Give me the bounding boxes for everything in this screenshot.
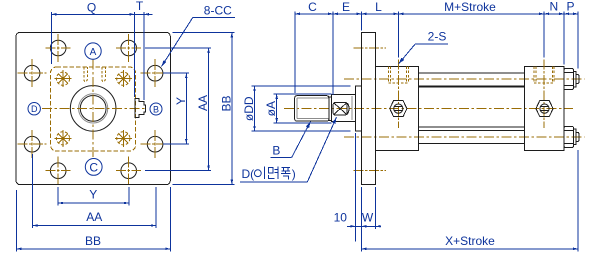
tie rod hole bottom-right (dashed with X) bbox=[115, 130, 132, 147]
svg-text:T: T bbox=[136, 0, 144, 13]
dimension Q bbox=[51, 1, 134, 97]
cap port hidden lines (2-S) bbox=[534, 60, 554, 128]
main centerline bbox=[284, 107, 573, 109]
bore centerline horizontal bbox=[42, 107, 145, 109]
bolt hole bottom-right bbox=[116, 157, 141, 185]
dimension oDD bbox=[242, 86, 351, 131]
svg-text:A: A bbox=[90, 47, 97, 58]
head hex plug bbox=[390, 101, 407, 117]
rod collar washer bbox=[329, 97, 332, 121]
leader 8-CC bbox=[162, 4, 235, 67]
dimension oA bbox=[264, 94, 331, 123]
port boss detail right of bore (T feature) bbox=[135, 99, 146, 118]
dimension BB bottom bbox=[16, 187, 170, 251]
svg-text:øA: øA bbox=[264, 101, 278, 116]
leader B bbox=[270, 122, 310, 158]
bolt hole top-right bbox=[116, 34, 141, 62]
svg-text:10: 10 bbox=[334, 210, 348, 224]
tie rod hole top-right (dashed with X) bbox=[115, 70, 132, 87]
tie rod nut top right bbox=[564, 69, 579, 90]
cylinder tube bbox=[418, 87, 524, 127]
dimension X+Stroke bbox=[361, 150, 578, 251]
head port hidden lines (2-S) bbox=[389, 60, 409, 128]
rod coupler body bbox=[331, 94, 355, 121]
svg-text:L: L bbox=[375, 0, 382, 14]
svg-text:C: C bbox=[308, 0, 317, 14]
hidden body square (dashed) bbox=[51, 67, 136, 151]
svg-text:W: W bbox=[362, 210, 374, 224]
rod end block bbox=[295, 96, 329, 122]
flange plate side view bbox=[361, 32, 375, 184]
flange bolt centerline bottom bbox=[354, 169, 387, 171]
bolt hole right-lower bbox=[141, 130, 170, 158]
dimension 10 and W bbox=[334, 133, 381, 251]
tie rod hole bottom-left (dashed with X) bbox=[55, 130, 72, 147]
hangul 폭 bbox=[281, 167, 290, 179]
svg-text:8-CC: 8-CC bbox=[204, 4, 232, 18]
tie rod hole top-left (dashed with X) bbox=[55, 70, 72, 87]
leader 2-S bbox=[399, 30, 448, 64]
bolt hole bottom-left bbox=[46, 157, 71, 185]
hangul 이 bbox=[254, 167, 264, 179]
leader D (width across flats, Korean) bbox=[240, 117, 337, 182]
center bore inner circle bbox=[80, 96, 106, 122]
port label A bbox=[85, 43, 101, 59]
flange bolt centerline top bbox=[354, 47, 387, 49]
flange pilot boss bbox=[355, 86, 361, 131]
dimension T bbox=[135, 0, 153, 100]
svg-text:AA: AA bbox=[86, 210, 102, 224]
dimension Y bottom bbox=[58, 187, 129, 206]
hangul 면 bbox=[268, 166, 278, 179]
bolt hole left-lower bbox=[18, 130, 47, 158]
svg-text:Y: Y bbox=[89, 187, 97, 201]
port label D bbox=[28, 103, 40, 115]
wrench flats square with X bbox=[333, 102, 347, 115]
tie rod centerline top bbox=[344, 78, 585, 80]
center bore outer circle bbox=[70, 86, 116, 132]
dimension AA bottom bbox=[32, 154, 155, 228]
bore centerline vertical bbox=[92, 60, 94, 159]
hidden slot right (port A passage) bbox=[102, 67, 106, 82]
center bore chamfer circle bbox=[79, 94, 108, 123]
svg-text:X+Stroke: X+Stroke bbox=[445, 234, 495, 248]
dimension BB vertical right bbox=[172, 32, 234, 184]
svg-text:D(: D( bbox=[242, 167, 255, 181]
svg-text:P: P bbox=[566, 0, 574, 14]
tie rod centerline bottom bbox=[344, 136, 585, 138]
svg-text:AA: AA bbox=[196, 95, 210, 111]
svg-text:E: E bbox=[342, 0, 350, 14]
svg-text:2-S: 2-S bbox=[428, 30, 447, 44]
tie rod bottom bar bbox=[418, 130, 524, 143]
dimension Y vertical right bbox=[163, 73, 189, 144]
svg-text:M+Stroke: M+Stroke bbox=[444, 0, 496, 14]
cylinder cap block bbox=[525, 67, 564, 151]
port label C bbox=[85, 159, 102, 176]
svg-text:N: N bbox=[549, 0, 558, 14]
hidden slot left (port A passage) bbox=[84, 67, 88, 82]
rod rounded tip arc bbox=[347, 103, 349, 114]
dimension AA vertical right bbox=[145, 48, 211, 171]
svg-text:B: B bbox=[153, 104, 159, 114]
port label B bbox=[150, 103, 162, 115]
flange plate outline bbox=[16, 32, 170, 184]
cylinder head block bbox=[376, 67, 419, 151]
svg-text:BB: BB bbox=[219, 95, 233, 111]
bolt hole right-upper bbox=[141, 59, 170, 87]
svg-text:C: C bbox=[89, 160, 98, 174]
svg-text:øDD: øDD bbox=[242, 96, 256, 121]
tie rod top bar bbox=[418, 73, 524, 86]
svg-text:BB: BB bbox=[85, 234, 101, 248]
svg-text:D: D bbox=[31, 104, 38, 114]
svg-text:Q: Q bbox=[87, 1, 96, 15]
bolt hole left-upper bbox=[18, 59, 47, 87]
tie rod nut bottom right bbox=[564, 127, 579, 148]
svg-text:B: B bbox=[272, 144, 280, 158]
bolt hole top-left bbox=[46, 34, 71, 62]
svg-text:Y: Y bbox=[174, 97, 188, 105]
cap hex plug bbox=[536, 101, 553, 117]
svg-text:): ) bbox=[292, 167, 296, 181]
dimension chain C E L M+Stroke N P bbox=[295, 0, 578, 95]
